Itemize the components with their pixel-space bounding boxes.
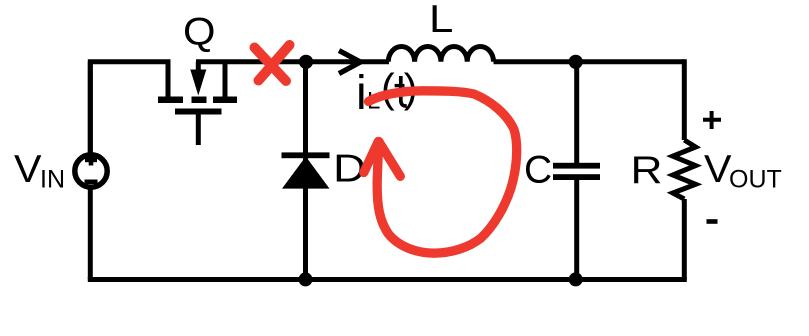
svg-text:L: L (429, 0, 453, 41)
current direction arrow on wire (339, 51, 361, 74)
body arrow stem (196, 62, 201, 70)
wire stub into circle (88, 62, 93, 165)
svg-text:R: R (631, 149, 663, 192)
anode triangle (282, 157, 330, 189)
transistor Q1 (MOSFET switch) (158, 62, 237, 145)
capacitor C1 upper lead (574, 59, 579, 163)
plus tick (85, 155, 97, 166)
label minus (output polarity) (707, 219, 718, 224)
wire: top rail from inductor to right corner (494, 59, 685, 64)
gate bar (175, 109, 222, 115)
wire: bottom rail (88, 277, 687, 282)
capacitor C1 lower lead (574, 180, 579, 280)
label iL(t) (356, 65, 417, 120)
bottom plate (553, 174, 600, 180)
svg-text:V: V (704, 148, 732, 191)
node: capacitor top junction dot (569, 55, 583, 69)
source contact bar (213, 97, 237, 104)
capacitor C1 (553, 163, 600, 180)
wire: right vertical upper (682, 59, 687, 140)
minus tick (85, 180, 98, 185)
circle (75, 155, 107, 187)
node: switch-node junction dot (299, 55, 313, 69)
wire: right vertical lower (682, 199, 687, 280)
source V_IN (independent voltage source) (75, 62, 107, 188)
wire: V_IN lower lead (88, 186, 93, 280)
node: diode bottom junction dot (299, 272, 313, 286)
drain lead (166, 62, 171, 97)
svg-text:C: C (524, 149, 552, 192)
drain contact bar (158, 97, 183, 104)
annotation: red current loop (369, 91, 517, 253)
svg-text:i: i (356, 67, 367, 120)
svg-text:Q: Q (183, 11, 216, 54)
svg-text:(: ( (381, 65, 395, 111)
gate lead (196, 114, 201, 145)
cathode bar (282, 152, 330, 158)
annotation: red loop arrowhead (364, 142, 401, 177)
label plus (output polarity) (703, 111, 721, 129)
svg-text:V: V (14, 148, 42, 191)
inductor L1 (388, 47, 493, 62)
source lead (223, 62, 228, 97)
letter t drawn to match tall t (401, 76, 407, 106)
wire: top rail from MOSFET source to inductor (196, 59, 389, 64)
svg-text:IN: IN (40, 166, 65, 194)
middle contact bar (192, 97, 207, 104)
node: capacitor bottom junction dot (569, 272, 583, 286)
wire: diode branch vertical (303, 62, 308, 280)
wire: left vertical + top-left rail (90, 62, 170, 164)
diode D1 (282, 152, 330, 188)
resistor R1 (673, 140, 696, 199)
body arrow head (190, 70, 206, 96)
svg-text:OUT: OUT (729, 166, 782, 194)
top plate (553, 163, 600, 169)
annotation: red X over switch wire (255, 45, 290, 81)
